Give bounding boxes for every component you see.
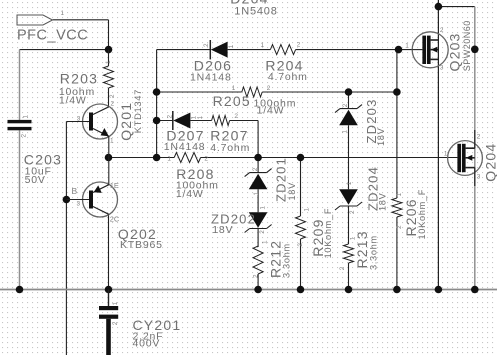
svg-text:2: 2 [297, 42, 301, 49]
wire [20, 49, 109, 51]
svg-text:2C: 2C [110, 215, 120, 224]
zener diode ZD203 [335, 98, 386, 146]
junction [254, 154, 262, 162]
svg-text:1: 1 [396, 193, 403, 197]
wire [474, 7, 476, 290]
junction [153, 154, 161, 162]
svg-text:2: 2 [396, 225, 403, 229]
resistor R208 [167, 153, 218, 200]
junction [63, 196, 71, 204]
svg-text:1/4W: 1/4W [176, 188, 204, 200]
svg-text:18V: 18V [287, 182, 297, 201]
svg-text:1N4148: 1N4148 [190, 72, 232, 84]
wire [257, 189, 259, 212]
svg-text:400V: 400V [133, 337, 161, 349]
svg-text:R205: R205 [213, 93, 251, 109]
svg-text:1N4148: 1N4148 [164, 141, 206, 153]
capacitor CY201 [99, 290, 181, 355]
svg-text:1: 1 [105, 60, 112, 64]
wire [348, 206, 350, 244]
wire [230, 120, 259, 122]
svg-text:2: 2 [252, 167, 259, 171]
zener diode ZD204 [335, 166, 388, 214]
capacitor C203 [8, 115, 63, 187]
transistor Q201 [66, 89, 142, 157]
svg-text:1/4W: 1/4W [257, 105, 285, 117]
wire [65, 122, 67, 355]
svg-text:2: 2 [267, 85, 271, 92]
svg-text:1: 1 [228, 44, 235, 48]
svg-text:R213: R213 [354, 230, 370, 268]
svg-text:B: B [72, 186, 78, 196]
wire [156, 50, 158, 158]
svg-text:2: 2 [111, 101, 115, 108]
svg-text:1: 1 [232, 85, 236, 92]
svg-text:1: 1 [303, 208, 310, 212]
wire [228, 49, 271, 51]
svg-text:3: 3 [440, 65, 444, 72]
junction [345, 88, 353, 96]
junction [395, 46, 403, 54]
port PFC_VCC [17, 10, 88, 44]
svg-text:2: 2 [259, 230, 266, 234]
wire [19, 50, 21, 120]
resistor R203 [59, 50, 116, 107]
svg-text:2: 2 [112, 321, 119, 325]
svg-text:2: 2 [297, 243, 304, 247]
svg-text:2: 2 [349, 210, 356, 214]
wire [396, 217, 398, 290]
wire [190, 120, 211, 122]
svg-text:1: 1 [253, 192, 260, 196]
wire [300, 239, 302, 290]
wire [157, 120, 173, 122]
svg-text:1: 1 [341, 130, 348, 134]
junction [105, 46, 113, 54]
junction [254, 286, 262, 294]
svg-text:1: 1 [346, 181, 353, 185]
wire [257, 158, 259, 173]
resistor R213 [339, 230, 378, 270]
svg-text:1: 1 [112, 301, 119, 305]
zener diode ZD201 [245, 157, 297, 202]
svg-text:1: 1 [197, 116, 204, 120]
svg-text:KTD1347: KTD1347 [133, 89, 143, 133]
svg-text:2: 2 [204, 156, 208, 163]
wire [157, 91, 242, 93]
diode D206 [190, 40, 235, 84]
svg-text:3: 3 [77, 201, 81, 208]
wire [108, 20, 110, 50]
junction [105, 154, 113, 162]
svg-text:1/4W: 1/4W [59, 95, 87, 107]
wire [257, 274, 259, 290]
svg-text:4.7ohm: 4.7ohm [268, 71, 308, 83]
wire [438, 6, 474, 8]
svg-text:1: 1 [261, 42, 265, 49]
svg-text:2: 2 [440, 27, 444, 34]
svg-text:2: 2 [203, 43, 210, 47]
svg-text:Q201: Q201 [118, 102, 134, 141]
wire [19, 130, 21, 289]
svg-text:1E: 1E [110, 181, 119, 190]
wire [53, 19, 109, 21]
svg-text:3: 3 [77, 116, 81, 123]
svg-text:18V: 18V [376, 127, 386, 146]
wire [109, 157, 175, 159]
wire [257, 229, 259, 248]
junction [471, 46, 479, 54]
resistor R204 [261, 42, 308, 84]
junction [16, 286, 24, 294]
zener diode ZD202 [211, 206, 272, 237]
diode D207 [164, 111, 206, 153]
svg-text:1: 1 [444, 151, 448, 158]
wire [108, 214, 110, 289]
svg-text:R203: R203 [60, 70, 98, 86]
diode D204 [230, 0, 277, 18]
svg-text:18V: 18V [212, 224, 233, 236]
svg-text:Q203: Q203 [447, 32, 463, 71]
svg-text:SPW20N60: SPW20N60 [462, 20, 472, 71]
wire [257, 121, 259, 158]
svg-text:2: 2 [339, 266, 346, 270]
svg-text:50V: 50V [25, 174, 46, 186]
svg-text:1N5408: 1N5408 [234, 6, 277, 18]
svg-text:2: 2 [252, 274, 259, 278]
svg-text:10Kohm_F: 10Kohm_F [417, 189, 427, 240]
svg-text:4.7ohm: 4.7ohm [210, 142, 250, 154]
junction [153, 88, 161, 96]
svg-text:1: 1 [110, 138, 114, 145]
svg-text:3: 3 [477, 174, 481, 181]
transistor Q202 [66, 158, 162, 252]
svg-text:2: 2 [477, 134, 481, 141]
svg-text:2: 2 [342, 103, 349, 107]
svg-text:1: 1 [23, 115, 30, 119]
wire [348, 92, 350, 108]
wire [201, 157, 458, 159]
svg-text:18V: 18V [378, 192, 388, 211]
MOSFET Q203 [405, 20, 472, 71]
junction [297, 154, 305, 162]
svg-text:2: 2 [167, 115, 174, 119]
resistor R206 [392, 189, 427, 240]
svg-text:2: 2 [234, 113, 238, 120]
junction [435, 3, 443, 11]
svg-text:1: 1 [260, 206, 267, 210]
resistor R207 [210, 113, 250, 154]
resistor R212 [252, 240, 291, 278]
junction [393, 286, 401, 294]
wire [437, 0, 439, 290]
junction [435, 286, 443, 294]
svg-text:3.3ohm: 3.3ohm [369, 235, 379, 270]
svg-text:1: 1 [405, 43, 409, 50]
svg-text:10Kohm_F: 10Kohm_F [323, 208, 333, 259]
svg-text:KTB965: KTB965 [120, 239, 163, 251]
wire [0, 289, 497, 291]
wire [262, 91, 397, 93]
junction [297, 286, 305, 294]
wire [157, 49, 211, 51]
junction [153, 117, 161, 125]
svg-text:Q204: Q204 [483, 143, 497, 182]
wire [348, 263, 350, 290]
resistor R209 [296, 208, 334, 259]
wire [396, 92, 398, 198]
svg-text:PFC_VCC: PFC_VCC [17, 28, 88, 44]
junction [471, 286, 479, 294]
wire [296, 49, 413, 51]
wire [300, 158, 302, 217]
svg-text:2: 2 [21, 134, 28, 138]
junction [393, 88, 401, 96]
junction [345, 286, 353, 294]
wire [396, 50, 398, 92]
MOSFET Q204 [444, 130, 497, 186]
svg-text:1: 1 [61, 10, 65, 17]
wire [348, 125, 350, 189]
svg-text:2: 2 [109, 94, 116, 98]
junction [105, 286, 113, 294]
svg-text:1: 1 [167, 156, 171, 163]
resistor R205 [213, 85, 297, 117]
svg-text:3.3ohm: 3.3ohm [281, 243, 291, 278]
